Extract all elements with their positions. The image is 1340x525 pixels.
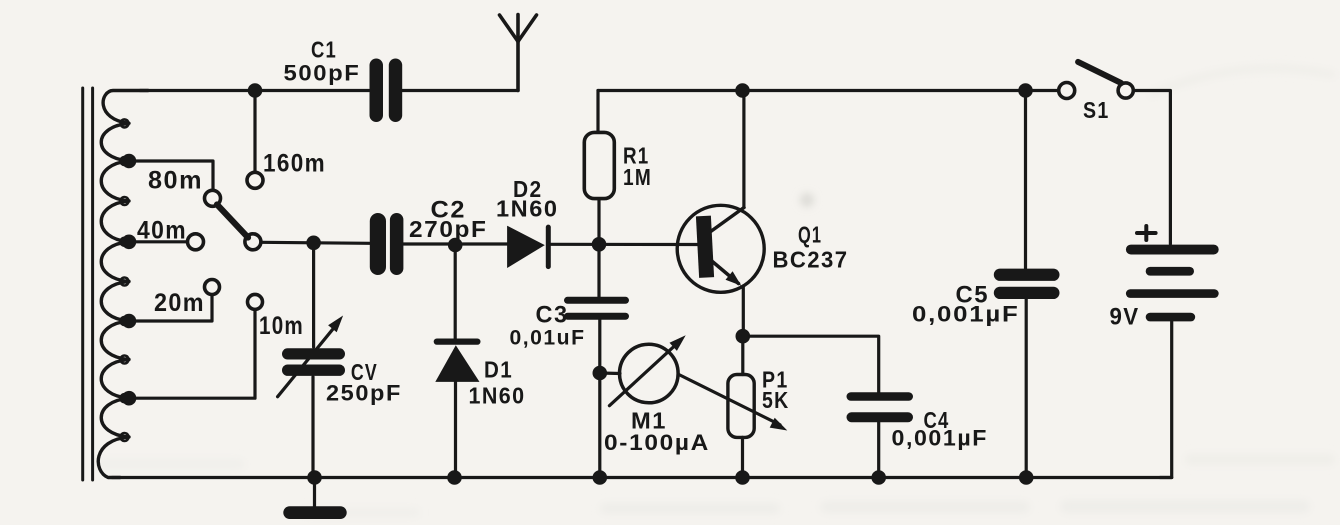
wire 160m tap: [253, 91, 256, 173]
node CV junction: [306, 236, 321, 251]
contact 40m: [188, 234, 204, 250]
svg-text:1N60: 1N60: [469, 383, 526, 409]
wire M1 stub: [600, 371, 620, 375]
node C3 bottom junction: [593, 470, 608, 485]
wire C5 top: [1024, 91, 1027, 269]
node C4 bottom junction: [871, 470, 886, 485]
label 160m: [263, 150, 326, 178]
tap node 10m: [122, 391, 137, 406]
label CV: [351, 359, 378, 385]
label 80m: [148, 167, 203, 195]
node D1 junction: [448, 238, 463, 253]
svg-text:1N60: 1N60: [496, 196, 559, 222]
svg-text:0-100µA: 0-100µA: [604, 430, 710, 455]
node emitter junction: [736, 329, 751, 344]
label C1: [311, 37, 337, 63]
label R1 value: [623, 164, 652, 190]
node ground junction: [307, 470, 322, 485]
wire node to D1: [454, 245, 457, 341]
svg-text:80m: 80m: [148, 167, 203, 195]
label 10m: [259, 312, 304, 340]
svg-text:9V: 9V: [1110, 304, 1140, 331]
wire S1 to battery: [1134, 91, 1171, 245]
label C2: [431, 197, 467, 224]
node C5 bottom junction: [1019, 470, 1034, 485]
battery plus sign: [1137, 226, 1156, 240]
tap node 80m: [122, 154, 137, 169]
label 20m: [154, 289, 205, 317]
wire node to C3: [597, 244, 600, 297]
capacitor C3: [564, 297, 629, 320]
svg-text:160m: 160m: [263, 150, 326, 178]
tap node 40m: [122, 235, 137, 250]
node M1 junction: [593, 366, 608, 381]
ground: [283, 478, 346, 520]
wire Q1 collector: [742, 91, 745, 208]
wire CV top: [312, 243, 315, 347]
potentiometer P1: [728, 375, 754, 438]
band switch pole contact: [245, 234, 261, 250]
capacitor C4: [847, 392, 914, 422]
wire R1 bottom stub: [597, 199, 600, 245]
wire 10m tap: [129, 310, 255, 399]
switch S1 contact right: [1118, 83, 1133, 98]
node D1 bottom junction: [447, 470, 462, 485]
svg-text:0,01uF: 0,01uF: [510, 327, 586, 350]
capacitor C1: [370, 59, 403, 123]
tap node 20m: [122, 314, 137, 329]
svg-text:40m: 40m: [137, 217, 187, 245]
inductor L1 (tapped antenna coil): [98, 91, 148, 478]
variable capacitor CV: [282, 348, 345, 376]
contact 20m: [205, 280, 220, 295]
wire C3 to bottom rail: [598, 320, 601, 478]
label D2 value: [496, 196, 559, 222]
label C3 value: [510, 327, 586, 350]
label D2: [513, 176, 543, 202]
wire battery to bottom rail: [1160, 321, 1172, 477]
contact 160m: [247, 172, 263, 188]
wire 80m tap: [129, 161, 213, 190]
node 160m rail junction: [248, 83, 263, 98]
svg-text:D1: D1: [484, 357, 513, 383]
svg-text:S1: S1: [1083, 97, 1110, 123]
wire top rail right: [598, 89, 1059, 92]
label C4 value: [892, 426, 989, 451]
svg-text:BC237: BC237: [773, 247, 849, 273]
wire C2 to D2: [403, 242, 508, 245]
meter M1 arrow: [609, 335, 685, 405]
resistor R1: [584, 132, 614, 198]
svg-text:20m: 20m: [154, 289, 205, 317]
battery B1: [1126, 245, 1219, 322]
wire CV bottom: [311, 377, 314, 478]
svg-text:5K: 5K: [762, 387, 790, 413]
node collector rail junction: [735, 83, 750, 98]
capacitor C2: [370, 213, 404, 275]
band switch lever: [217, 205, 248, 238]
transistor Q1: [677, 205, 764, 292]
switch S1 contact left: [1059, 83, 1075, 99]
svg-text:C3: C3: [536, 302, 569, 329]
wire pole to C2: [261, 242, 370, 243]
label Q1 type: [773, 247, 849, 273]
node C5 rail junction: [1018, 83, 1033, 98]
wire emitter to C4: [743, 336, 879, 392]
wire top rail left: [140, 89, 369, 92]
diode D2: [507, 225, 551, 270]
label C5: [956, 282, 990, 309]
svg-text:500pF: 500pF: [284, 61, 361, 86]
svg-text:0,001µF: 0,001µF: [912, 302, 1020, 327]
switch S1 lever: [1078, 62, 1121, 83]
svg-text:Q1: Q1: [798, 222, 822, 248]
wire D2 to base: [551, 243, 698, 246]
svg-text:270pF: 270pF: [409, 216, 488, 242]
label D1: [484, 357, 513, 383]
contact 80m: [205, 190, 221, 206]
svg-text:1M: 1M: [623, 164, 652, 190]
label Q1: [798, 222, 822, 248]
label S1: [1083, 97, 1110, 123]
label C5 value: [912, 302, 1020, 327]
svg-text:0,001µF: 0,001µF: [892, 426, 989, 451]
wire R1 top stub: [596, 91, 599, 133]
capacitor C5: [994, 269, 1060, 299]
node R1-C3 junction: [592, 237, 607, 252]
label C4: [924, 407, 950, 433]
label 40m: [137, 217, 187, 245]
wire Q1 emitter: [742, 286, 745, 336]
wire 40m tap: [129, 240, 187, 243]
svg-text:250pF: 250pF: [326, 381, 402, 406]
label P1: [762, 367, 789, 393]
contact 10m: [248, 294, 263, 309]
wire C4 bottom stub: [877, 422, 880, 477]
wire D1 to bottom rail: [454, 382, 457, 478]
label M1: [631, 408, 667, 434]
diode D1: [434, 339, 481, 382]
svg-text:C1: C1: [311, 37, 337, 63]
transformer core lines: [83, 88, 93, 480]
wire P1 bottom stub: [741, 437, 744, 477]
label C3: [536, 302, 569, 329]
arrow P1 wiper: [679, 375, 788, 431]
meter M1: [620, 344, 679, 403]
wire bottom rail: [112, 476, 1172, 479]
wire C5 bottom: [1025, 299, 1028, 478]
label M1 range: [604, 430, 710, 455]
label C2 value: [409, 216, 488, 242]
wire C1 to antenna: [402, 89, 518, 92]
wire P1 top stub: [741, 336, 744, 374]
label C1 value: [284, 61, 361, 86]
label 9V: [1110, 304, 1140, 331]
label P1 value: [762, 387, 790, 413]
label R1: [623, 143, 650, 169]
arrow CV: [278, 316, 344, 397]
wire 20m tap: [129, 295, 212, 321]
node P1 bottom junction: [735, 470, 750, 485]
label D1 value: [469, 383, 526, 409]
antenna: [500, 15, 537, 91]
label CV value: [326, 381, 402, 406]
svg-text:10m: 10m: [259, 312, 304, 340]
